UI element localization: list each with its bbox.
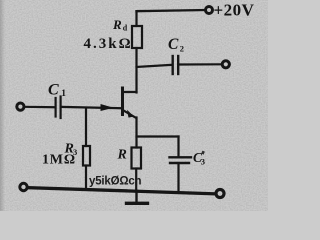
svg-text:C: C [48,81,59,98]
terminal output [222,61,229,68]
svg-text:4.3kΩ: 4.3kΩ [84,36,133,52]
ground symbol stem [135,191,137,202]
wire R4 bottom to collector [135,48,137,93]
wire C3 bottom lead [177,164,179,193]
transistor Q1 base bar [121,88,124,115]
svg-text:C: C [168,36,179,53]
svg-text:R: R [117,148,127,163]
capacitor C2 left plate [171,56,173,74]
wire C2 to output [179,63,221,65]
wire collector lead [123,91,137,93]
transistor base arrow [101,104,114,111]
wire emitter down [135,118,137,148]
terminal bottom-left [20,183,27,190]
capacitor C1 right plate [59,97,61,119]
svg-text:1MΩ: 1MΩ [42,153,76,168]
capacitor C3 top plate [170,156,192,158]
resistor R3 [83,146,90,166]
capacitor C1 left plate [54,98,56,117]
svg-text:2: 2 [180,44,184,54]
emitter arrowhead [127,110,134,118]
wire R4 top lead [135,11,137,26]
wire top rail to +20V [137,10,205,11]
wire emitter to C3 branch [137,135,179,137]
svg-text:3: 3 [201,157,205,167]
wire emitter lead [124,111,136,118]
terminal +20V [206,7,213,14]
resistor R [132,148,142,169]
wire R3 tap [85,108,87,146]
scan smudge left edge [0,0,5,211]
svg-text:1: 1 [61,89,66,99]
ground symbol bar [127,202,148,205]
capacitor C3 bottom plate [170,162,189,164]
wire input to C1 [25,106,55,109]
wire R3 bottom lead [85,166,87,190]
wire C3 top lead [177,137,179,158]
svg-text:d: d [123,24,128,33]
paper background [0,0,268,211]
svg-text:y5ikØΩcn: y5ikØΩcn [89,176,142,188]
capacitor C2 right plate [177,56,179,74]
resistor R4 [132,26,142,48]
wire R bottom lead [135,169,137,192]
terminal input [17,103,24,110]
wire C2 branch [137,65,173,67]
svg-text:R: R [112,17,122,32]
terminal bottom-right [216,190,224,198]
wire base lead [61,107,122,108]
svg-text:+20V: +20V [214,0,255,19]
ground rail [28,188,215,194]
